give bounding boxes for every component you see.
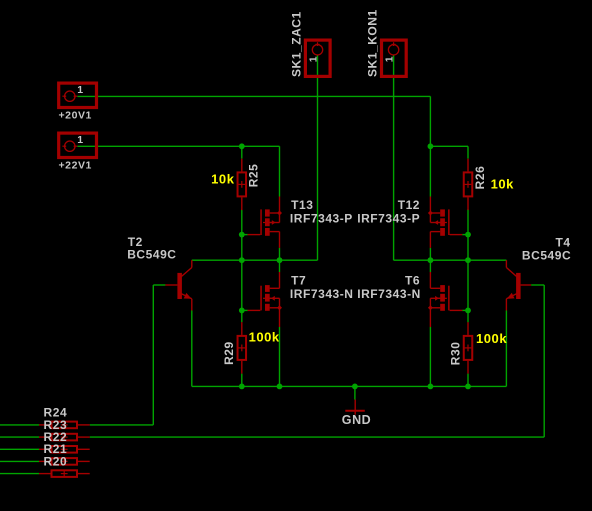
- svg-text:T6: T6: [405, 274, 420, 288]
- wire left stub R23: [0, 436, 39, 438]
- svg-text:100k: 100k: [249, 329, 280, 344]
- wire R24 to T2 base column: [90, 424, 154, 426]
- svg-text:100k: 100k: [476, 331, 507, 346]
- wire R23 to T4 base column: [90, 436, 545, 438]
- svg-text:R29: R29: [222, 341, 236, 365]
- wire T7 source to lower rail: [279, 327, 281, 386]
- resistor R21: [39, 458, 90, 465]
- wire +22V to R25: [241, 146, 243, 158]
- wire SK1_ZAC1 vertical: [317, 55, 319, 260]
- wire upper rail left segment: [192, 259, 318, 261]
- svg-text:IRF7343-P: IRF7343-P: [357, 211, 420, 225]
- wire gate node to T7 gate pin: [242, 309, 248, 311]
- transistor T7 (MOSFET IRF7343-N): [248, 272, 282, 327]
- wire left stub R22: [0, 448, 39, 450]
- node T12 gate: [465, 232, 471, 238]
- svg-text:BC549C: BC549C: [127, 247, 176, 261]
- svg-text:R20: R20: [44, 454, 68, 468]
- svg-text:R25: R25: [247, 164, 261, 188]
- node rail/R column right: [465, 257, 471, 263]
- wire +20V branch to R26: [467, 146, 469, 158]
- resistor R25: [238, 159, 247, 210]
- node T6 gate: [465, 308, 471, 314]
- wire T2 base column: [152, 285, 154, 425]
- node lower rail T6: [428, 384, 434, 390]
- wire T12 gate node to R30: [467, 235, 469, 323]
- transistor T12 (MOSFET IRF7343-P): [428, 197, 462, 248]
- svg-text:10k: 10k: [211, 172, 235, 187]
- node rail/FET column left: [277, 257, 283, 263]
- wire to GND symbol: [354, 386, 356, 399]
- transistor T13 (MOSFET IRF7343-P): [248, 197, 282, 248]
- wire gate node to T12 gate pin: [462, 234, 468, 236]
- svg-text:GND: GND: [342, 413, 371, 427]
- wire +20V branch to R26: [430, 145, 468, 147]
- wire lower rail: [192, 385, 507, 387]
- svg-text:+20V1: +20V1: [59, 110, 92, 122]
- node lower rail T7: [277, 384, 283, 390]
- wire gate node to T6 gate pin: [462, 309, 468, 311]
- wire T4 base to right column: [531, 284, 544, 286]
- svg-text:1: 1: [77, 84, 83, 96]
- resistor R24: [39, 422, 90, 429]
- wire R25 to T13 gate node: [241, 209, 243, 235]
- node lower rail R29: [239, 384, 245, 390]
- wire R30 to lower rail: [467, 374, 469, 387]
- wire R29 to lower rail: [241, 374, 243, 387]
- svg-text:T12: T12: [398, 198, 420, 212]
- wire gate node to T13 gate pin: [242, 234, 248, 236]
- wire left stub R21: [0, 460, 39, 462]
- wire T4 emitter down: [505, 311, 507, 387]
- wire T4 base column: [543, 285, 545, 437]
- wire T13 drain to T7 drain: [279, 248, 281, 272]
- resistor R26: [464, 159, 473, 210]
- wire left stub R20: [0, 473, 39, 475]
- connector SK1_ZAC1: [305, 40, 330, 76]
- svg-text:BC549C: BC549C: [522, 248, 571, 262]
- transistor T6 (MOSFET IRF7343-N): [428, 272, 462, 327]
- svg-text:IRF7343-N: IRF7343-N: [290, 287, 354, 301]
- resistor R20: [39, 470, 90, 477]
- transistor T2 (BC549C): [165, 260, 191, 310]
- svg-text:+22V1: +22V1: [59, 160, 92, 172]
- wire upper rail right segment: [394, 259, 507, 261]
- node T13 gate: [239, 232, 245, 238]
- node +20V/T12 junction: [428, 143, 434, 149]
- wire to T2 base: [153, 284, 165, 286]
- resistor R29: [238, 322, 247, 373]
- connector SK1_KON1: [382, 40, 407, 76]
- svg-text:IRF7343-N: IRF7343-N: [357, 287, 421, 301]
- resistor R30: [464, 322, 473, 373]
- node +22V/R25 junction: [239, 143, 245, 149]
- svg-text:10k: 10k: [491, 176, 515, 191]
- svg-text:R30: R30: [449, 342, 463, 366]
- wire +22V1 horizontal: [77, 145, 279, 147]
- node lower rail R30: [465, 384, 471, 390]
- svg-text:SK1_ZAC1: SK1_ZAC1: [289, 11, 303, 77]
- resistor R22: [39, 446, 90, 453]
- svg-text:R26: R26: [473, 166, 487, 190]
- wire T6 source to lower rail: [429, 327, 431, 386]
- node T7 gate: [239, 308, 245, 314]
- wire +22V down to T13 source: [279, 146, 281, 196]
- wire T13 gate node to R29: [241, 235, 243, 323]
- node rail/R column left: [239, 257, 245, 263]
- node lower rail GND: [352, 384, 358, 390]
- wire +20V1 horizontal: [77, 95, 430, 97]
- resistor R23: [39, 434, 90, 441]
- svg-text:SK1_KON1: SK1_KON1: [365, 9, 379, 77]
- wire left stub R24: [0, 424, 39, 426]
- wire SK1_KON1 vertical: [393, 55, 395, 260]
- node rail/FET column right: [428, 257, 434, 263]
- svg-text:1: 1: [308, 56, 320, 62]
- svg-text:IRF7343-P: IRF7343-P: [290, 211, 353, 225]
- svg-text:T4: T4: [556, 235, 571, 249]
- svg-text:T13: T13: [291, 198, 313, 212]
- connector +20V1: [59, 83, 97, 107]
- ground symbol: [345, 400, 365, 415]
- wire T2 emitter down: [191, 311, 193, 387]
- svg-text:1: 1: [77, 134, 83, 146]
- svg-text:1: 1: [384, 56, 396, 62]
- wire +20V down to T12 source: [429, 96, 431, 196]
- transistor T4 (BC549C): [506, 260, 531, 310]
- svg-text:T7: T7: [291, 274, 306, 288]
- wire T12 drain to T6 drain: [429, 248, 431, 272]
- connector +22V1: [59, 133, 97, 157]
- wire R26 to T12 gate node: [467, 209, 469, 235]
